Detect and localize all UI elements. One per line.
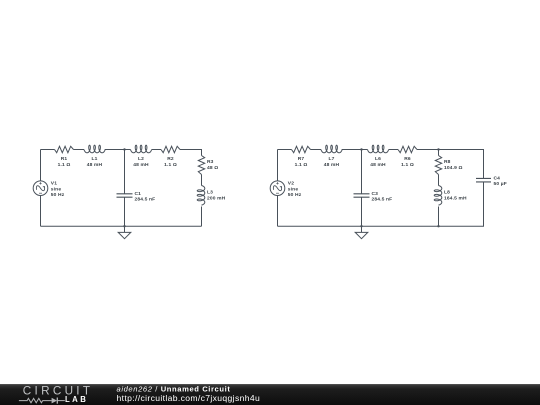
svg-text:1.1 Ω: 1.1 Ω bbox=[164, 162, 177, 168]
resistor R8 bbox=[435, 156, 441, 175]
resistor R2 bbox=[161, 146, 180, 152]
label V2 value bbox=[288, 181, 302, 198]
wire: right vertical below L bbox=[201, 207, 203, 227]
label R6 value bbox=[401, 156, 414, 168]
svg-text:LAB: LAB bbox=[65, 395, 88, 404]
resistor R3 bbox=[198, 156, 204, 175]
svg-text:48 mH: 48 mH bbox=[87, 162, 103, 168]
label R1 value bbox=[58, 156, 71, 168]
label L2 value bbox=[133, 156, 149, 168]
svg-text:V2: V2 bbox=[288, 181, 294, 187]
svg-text:L8: L8 bbox=[444, 190, 450, 196]
wire: between L2 and R2 bbox=[152, 149, 161, 151]
svg-text:R8: R8 bbox=[444, 159, 451, 165]
inductor L8 bbox=[434, 186, 442, 206]
wire: between R and L top-left bbox=[74, 149, 85, 151]
wire: left vertical above source bbox=[40, 150, 42, 181]
wire: top-left segment bbox=[41, 149, 55, 151]
node: junction at bottom of capacitor branch bbox=[123, 225, 125, 227]
capacitor C1 bbox=[117, 194, 133, 197]
wire: top-left segment bbox=[278, 149, 292, 151]
svg-text:284.5 nF: 284.5 nF bbox=[372, 196, 393, 202]
svg-text:L7: L7 bbox=[328, 156, 334, 162]
logo diode bbox=[52, 398, 57, 404]
wire: bottom bbox=[41, 225, 202, 227]
capacitor C3 bbox=[354, 194, 370, 197]
node: junction at top of capacitor branch bbox=[123, 148, 125, 150]
node: junction at bottom of capacitor branch bbox=[360, 225, 362, 227]
wire: between L2 and R2 bbox=[389, 149, 398, 151]
svg-text:L2: L2 bbox=[138, 156, 144, 162]
svg-text:1.1 Ω: 1.1 Ω bbox=[401, 162, 414, 168]
label L3 value bbox=[207, 190, 226, 202]
svg-text:R2: R2 bbox=[167, 156, 174, 162]
label C1 value bbox=[135, 191, 156, 202]
label L8 value bbox=[444, 190, 467, 202]
node: junction at top of capacitor branch bbox=[360, 148, 362, 150]
inductor L6 bbox=[368, 145, 389, 153]
wire: R2 to right corner, down bbox=[180, 150, 202, 156]
svg-text:R6: R6 bbox=[404, 156, 411, 162]
wire: capacitor branch upper bbox=[124, 150, 126, 194]
ground symbol bbox=[124, 226, 126, 232]
svg-text:48 Ω: 48 Ω bbox=[207, 165, 218, 171]
label L7 value bbox=[324, 156, 340, 168]
svg-text:C3: C3 bbox=[372, 191, 379, 197]
wire: capacitor branch upper bbox=[361, 150, 363, 194]
label R2 value bbox=[164, 156, 177, 168]
wire: left vertical below source bbox=[40, 196, 42, 227]
voltage source V2 (sine 50 Hz) bbox=[270, 181, 285, 196]
svg-text:R1: R1 bbox=[61, 156, 68, 162]
capacitor C4 bbox=[476, 178, 491, 182]
label R3 value bbox=[207, 159, 218, 171]
svg-text:48 mH: 48 mH bbox=[133, 162, 149, 168]
wire: capacitor branch lower bbox=[124, 197, 126, 226]
svg-text:50 µF: 50 µF bbox=[494, 181, 507, 187]
wire: bottom bbox=[278, 225, 439, 227]
svg-text:L1: L1 bbox=[91, 156, 97, 162]
svg-text:48 mH: 48 mH bbox=[370, 162, 386, 168]
inductor L1 bbox=[84, 145, 105, 153]
svg-text:L3: L3 bbox=[207, 190, 213, 196]
wire: L1 to middle node bbox=[105, 149, 125, 151]
svg-text:200 mH: 200 mH bbox=[207, 196, 226, 202]
wire: right vertical below L bbox=[438, 207, 440, 227]
logo resistor zigzag bbox=[19, 398, 52, 402]
svg-text:L6: L6 bbox=[375, 156, 381, 162]
svg-text:sine: sine bbox=[288, 186, 299, 192]
resistor R7 bbox=[292, 146, 311, 152]
svg-text:104.9 Ω: 104.9 Ω bbox=[444, 165, 463, 171]
wire: right vertical between R and L bbox=[438, 175, 440, 186]
svg-text:50 Hz: 50 Hz bbox=[51, 192, 65, 198]
wire: C4 branch lower + bottom wire to R8 branch bbox=[439, 182, 484, 226]
resistor R6 bbox=[398, 146, 417, 152]
ground symbol bbox=[361, 226, 363, 232]
svg-text:V1: V1 bbox=[51, 181, 57, 187]
label C4 value bbox=[494, 176, 507, 187]
wire: L1 to middle node bbox=[342, 149, 362, 151]
voltage source V1 (sine 50 Hz) bbox=[33, 181, 48, 196]
svg-text:C1: C1 bbox=[135, 191, 142, 197]
label R8 value bbox=[444, 159, 463, 171]
inductor L7 bbox=[321, 145, 342, 153]
wire: between R and L top-left bbox=[311, 149, 322, 151]
wire: right vertical between R and L bbox=[201, 175, 203, 186]
svg-text:sine: sine bbox=[51, 186, 62, 192]
node: junction top of R8 branch bbox=[437, 148, 439, 150]
wire: capacitor branch lower bbox=[361, 197, 363, 226]
svg-text:C4: C4 bbox=[494, 176, 501, 182]
wire: R2 to right corner, down bbox=[417, 150, 439, 156]
svg-text:48 mH: 48 mH bbox=[324, 162, 340, 168]
svg-text:50 Hz: 50 Hz bbox=[288, 192, 302, 198]
label L1 value bbox=[87, 156, 103, 168]
svg-text:http://circuitlab.com/c7jxuqgj: http://circuitlab.com/c7jxuqgjsnh4u bbox=[117, 393, 261, 403]
label R7 value bbox=[295, 156, 308, 168]
svg-text:1.1 Ω: 1.1 Ω bbox=[58, 162, 71, 168]
inductor L3 bbox=[197, 186, 205, 206]
svg-text:R7: R7 bbox=[298, 156, 305, 162]
resistor R1 bbox=[55, 146, 74, 152]
wire: top wire from R8 branch to C4 branch bbox=[439, 150, 484, 179]
wire: left vertical above source bbox=[277, 150, 279, 181]
wire: left vertical below source bbox=[277, 196, 279, 227]
svg-text:1.1 Ω: 1.1 Ω bbox=[295, 162, 308, 168]
node: junction bottom of R8 branch bbox=[437, 225, 439, 227]
label V1 value bbox=[51, 181, 65, 198]
wire: middle node to L2 bbox=[125, 149, 131, 151]
label C3 value bbox=[372, 191, 393, 202]
wire: middle node to L2 bbox=[362, 149, 368, 151]
svg-text:R3: R3 bbox=[207, 159, 214, 165]
svg-text:284.5 nF: 284.5 nF bbox=[135, 196, 156, 202]
svg-text:164.5 mH: 164.5 mH bbox=[444, 196, 467, 202]
inductor L2 bbox=[131, 145, 152, 153]
label L6 value bbox=[370, 156, 386, 168]
